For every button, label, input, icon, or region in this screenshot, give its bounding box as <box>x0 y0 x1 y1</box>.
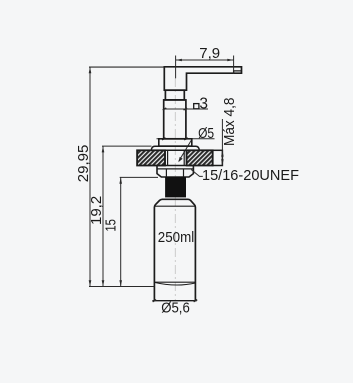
svg-text:15/16-20UNEF: 15/16-20UNEF <box>202 167 299 184</box>
19,2 bottom arrowhead <box>102 280 105 286</box>
max 4,8 upper arrowhead <box>221 150 224 156</box>
29,95 bottom arrowhead <box>89 280 92 286</box>
flange side tab <box>213 150 223 165</box>
max 4,8 lower arrowhead <box>221 159 224 165</box>
7,9 left extension line <box>175 56 177 79</box>
escutcheon plate <box>151 146 199 150</box>
hex nut outline <box>157 166 193 178</box>
tick left of diameter 5,6 <box>153 300 157 302</box>
bottle bottom seam line <box>154 281 195 283</box>
19,2 top extension to plate <box>102 145 152 147</box>
dimension square-3 line <box>165 108 208 110</box>
washer ring under shaft <box>159 139 192 146</box>
black threaded adapter <box>166 178 186 197</box>
tick left of 3 dimension <box>163 108 167 110</box>
dimension 7,9 line <box>176 59 234 61</box>
tick right of 3 dimension <box>184 108 188 110</box>
leader from diameter 5 to thread <box>179 139 192 161</box>
7,9 right arrowhead <box>227 59 233 62</box>
pump shaft body <box>164 100 186 139</box>
tick left of diameter 5 <box>162 138 166 140</box>
centerline of dispenser axis <box>174 78 176 300</box>
bottle bottom edge with diameter 5,6 dimension <box>152 300 196 302</box>
threaded shaft through flange left lines <box>164 150 166 165</box>
arrowhead of diameter 5 leader <box>178 157 182 162</box>
15 top extension to nut bottom <box>120 176 158 178</box>
tick right of diameter 5,6 <box>194 300 198 302</box>
spout tip step line <box>234 71 242 73</box>
svg-text:7,9: 7,9 <box>199 45 220 62</box>
29,95 top extension to spout <box>89 66 165 68</box>
bottle shoulder joint line <box>154 205 195 207</box>
29,95 top arrowhead <box>89 67 92 73</box>
svg-text:Ø5,6: Ø5,6 <box>161 300 190 317</box>
shared bottom extension line <box>89 286 154 288</box>
dimension 29,95 vertical line <box>89 67 91 287</box>
dimension line diameter 5 <box>157 138 215 140</box>
threaded shaft through flange right lines <box>183 150 185 165</box>
dimension 15 vertical line <box>120 177 122 286</box>
bottle outline <box>154 199 195 300</box>
15 top arrowhead <box>119 177 122 183</box>
flange hatched left <box>137 150 165 165</box>
15 bottom arrowhead <box>119 280 122 286</box>
hex nut chamfer line <box>157 168 193 170</box>
bottle bottom seam sag <box>154 282 195 285</box>
flange hatched right <box>187 150 213 165</box>
7,9 right extension line <box>233 56 235 74</box>
19,2 top arrowhead <box>102 146 105 152</box>
svg-text:3: 3 <box>199 96 208 113</box>
pump neck section <box>165 90 184 100</box>
square symbol for 3 <box>194 104 199 109</box>
7,9 left arrowhead <box>176 59 182 62</box>
hex nut facet lines <box>165 169 167 177</box>
svg-text:15: 15 <box>102 219 119 232</box>
leader for thread label <box>191 170 203 177</box>
spout arm and pump head outline <box>164 67 241 90</box>
max 4,8 dimension line <box>221 119 223 166</box>
tick right of diameter 5 <box>184 138 188 140</box>
dimension 19,2 vertical line <box>102 146 104 286</box>
svg-text:Máx 4,8: Máx 4,8 <box>221 98 238 146</box>
svg-text:Ø5: Ø5 <box>198 125 214 142</box>
svg-text:250ml: 250ml <box>158 229 194 246</box>
svg-text:29,95: 29,95 <box>75 145 92 183</box>
